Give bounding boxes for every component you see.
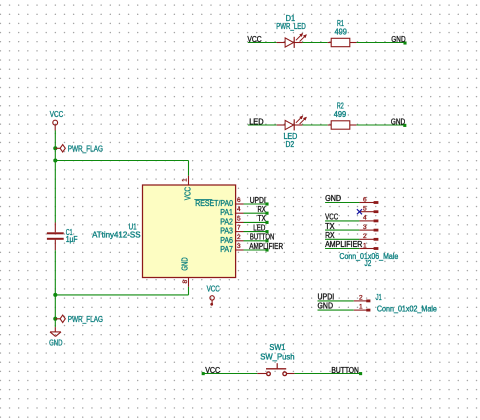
svg-text:4: 4	[237, 206, 241, 213]
svg-text:2: 2	[359, 294, 363, 301]
svg-text:VCC: VCC	[207, 285, 220, 294]
svg-text:8: 8	[182, 280, 189, 284]
svg-text:GND: GND	[391, 35, 406, 44]
svg-text:PWR_FLAG: PWR_FLAG	[68, 315, 103, 324]
svg-text:4: 4	[363, 215, 367, 222]
svg-text:499: 499	[335, 28, 347, 37]
svg-text:GND: GND	[181, 257, 190, 271]
svg-text:1µF: 1µF	[66, 235, 78, 244]
svg-text:5: 5	[237, 215, 241, 222]
svg-text:GND: GND	[318, 302, 334, 311]
svg-text:VCC: VCC	[247, 35, 262, 44]
svg-text:5: 5	[363, 206, 367, 213]
svg-text:J1: J1	[376, 293, 382, 302]
svg-text:6: 6	[363, 196, 367, 203]
svg-text:PA3: PA3	[220, 227, 233, 236]
svg-text:UPDI: UPDI	[318, 292, 335, 301]
svg-text:1: 1	[181, 178, 188, 182]
svg-text:RX: RX	[258, 205, 267, 214]
svg-text:VCC: VCC	[183, 187, 192, 201]
svg-text:PA7: PA7	[220, 245, 233, 254]
svg-text:3: 3	[237, 243, 241, 250]
svg-text:PA1: PA1	[220, 208, 233, 217]
svg-text:1: 1	[359, 304, 363, 311]
svg-text:3: 3	[363, 224, 367, 231]
svg-text:AMPLIFIER: AMPLIFIER	[249, 242, 283, 251]
svg-text:VCC: VCC	[325, 213, 338, 222]
svg-text:ATtiny412-SS: ATtiny412-SS	[92, 231, 140, 240]
svg-text:RX: RX	[325, 231, 335, 240]
svg-text:GND: GND	[391, 117, 406, 126]
svg-text:VCC: VCC	[50, 110, 64, 119]
svg-text:VCC: VCC	[205, 366, 220, 375]
svg-text:BUTTON: BUTTON	[250, 233, 274, 242]
svg-text:GND: GND	[49, 338, 63, 347]
svg-text:PA6: PA6	[220, 236, 233, 245]
svg-text:GND: GND	[325, 194, 341, 203]
svg-text:1: 1	[363, 242, 367, 249]
svg-text:LED: LED	[253, 223, 265, 232]
svg-text:PWR_LED: PWR_LED	[276, 22, 306, 31]
svg-text:499: 499	[334, 110, 346, 119]
svg-text:BUTTON: BUTTON	[331, 366, 359, 375]
svg-text:RESET/PA0: RESET/PA0	[195, 199, 233, 208]
svg-text:AMPLIFIER: AMPLIFIER	[325, 240, 363, 249]
svg-text:SW_Push: SW_Push	[260, 352, 294, 361]
svg-text:TX: TX	[325, 222, 335, 231]
svg-text:7: 7	[237, 225, 241, 232]
svg-text:6: 6	[237, 197, 241, 204]
svg-text:SW1: SW1	[269, 343, 285, 352]
svg-text:UPDI: UPDI	[250, 196, 266, 205]
svg-text:D2: D2	[285, 140, 294, 149]
svg-text:PA2: PA2	[220, 217, 233, 226]
svg-text:TX: TX	[258, 214, 267, 223]
svg-text:J2: J2	[365, 259, 372, 268]
svg-text:PWR_FLAG: PWR_FLAG	[68, 145, 103, 154]
svg-text:LED: LED	[249, 117, 264, 126]
svg-text:2: 2	[237, 234, 241, 241]
svg-text:Conn_01x02_Male: Conn_01x02_Male	[377, 305, 437, 314]
svg-text:2: 2	[363, 233, 367, 240]
